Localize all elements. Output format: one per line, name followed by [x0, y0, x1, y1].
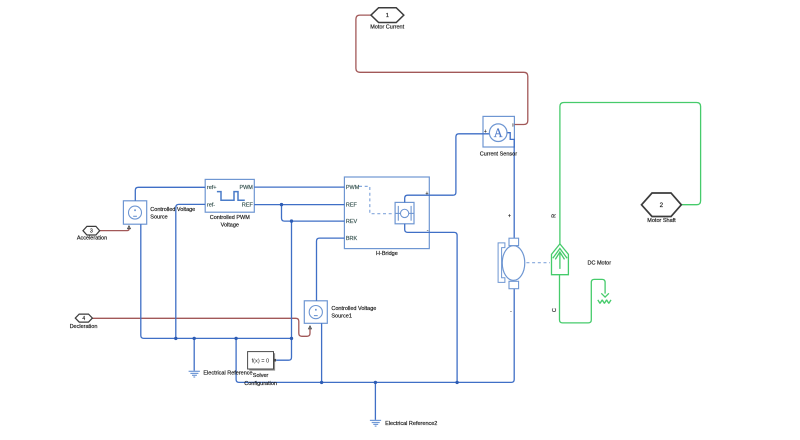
- svg-text:+: +: [484, 129, 487, 135]
- svg-text:Configuration: Configuration: [244, 381, 277, 387]
- svg-text:PWM: PWM: [239, 185, 253, 191]
- svg-text:3: 3: [90, 229, 93, 235]
- svg-text:ref-: ref-: [207, 202, 215, 208]
- svg-text:Solver: Solver: [253, 373, 269, 379]
- svg-text:Electrical Reference2: Electrical Reference2: [385, 421, 437, 427]
- svg-text:4: 4: [82, 316, 85, 322]
- svg-text:REF: REF: [242, 203, 254, 209]
- svg-text:Current Sensor: Current Sensor: [480, 152, 517, 158]
- svg-text:Voltage: Voltage: [221, 222, 239, 228]
- svg-text:Source: Source: [150, 214, 167, 220]
- svg-text:C: C: [552, 308, 558, 312]
- svg-text:REF: REF: [346, 203, 358, 209]
- svg-text:Source1: Source1: [331, 313, 352, 319]
- svg-text:Controlled PWM: Controlled PWM: [210, 215, 250, 221]
- svg-text:-: -: [510, 309, 512, 315]
- svg-text:Acceleration: Acceleration: [77, 235, 107, 241]
- svg-text:ref+: ref+: [207, 185, 217, 191]
- svg-text:DC Motor: DC Motor: [588, 260, 612, 266]
- svg-text:1: 1: [386, 13, 389, 19]
- svg-text:Controlled Voltage: Controlled Voltage: [150, 207, 195, 213]
- svg-text:Motor Shaft: Motor Shaft: [647, 218, 676, 224]
- svg-text:Electrical Reference: Electrical Reference: [203, 371, 252, 377]
- svg-text:Motor Current: Motor Current: [370, 25, 404, 31]
- svg-text:f(x) = 0: f(x) = 0: [252, 358, 270, 364]
- svg-text:BRK: BRK: [346, 236, 358, 242]
- svg-text:+: +: [508, 213, 511, 219]
- svg-text:Decleration: Decleration: [70, 324, 98, 330]
- svg-text:A: A: [494, 126, 503, 140]
- svg-text:Controlled Voltage: Controlled Voltage: [331, 306, 376, 312]
- svg-text:PWM: PWM: [346, 185, 360, 191]
- svg-text:R: R: [552, 214, 558, 218]
- svg-text:H-Bridge: H-Bridge: [376, 251, 398, 257]
- svg-text:+: +: [425, 191, 428, 197]
- svg-text:2: 2: [660, 202, 664, 209]
- svg-text:REV: REV: [346, 219, 358, 225]
- svg-text:I: I: [512, 123, 513, 128]
